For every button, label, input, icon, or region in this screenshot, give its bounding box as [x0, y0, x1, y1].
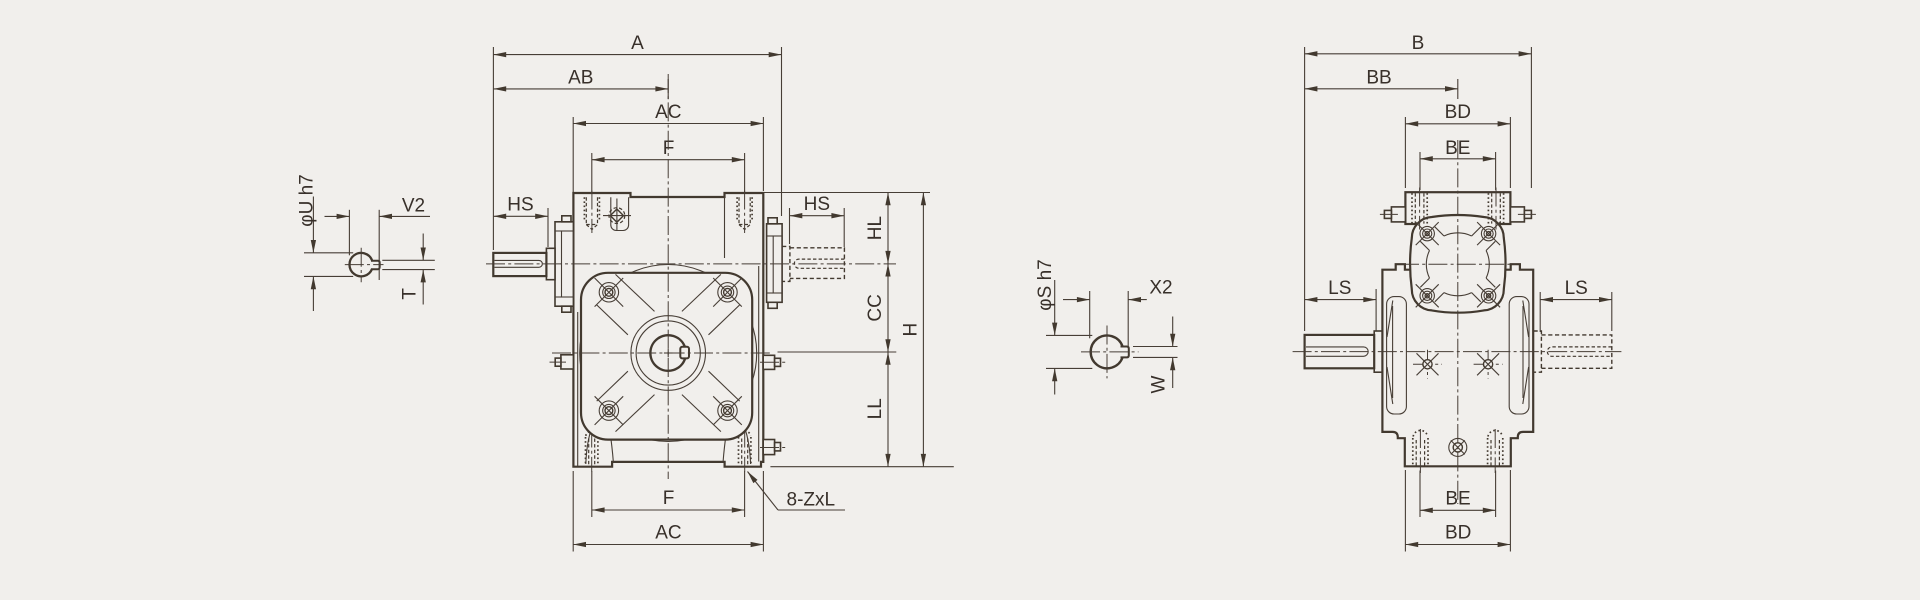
shaft section circle U: [349, 253, 372, 276]
crosshair S: [1081, 351, 1139, 353]
dimension AC bottom: [573, 544, 763, 546]
foot tapped hole right (dotted thread + dashed core): [738, 437, 740, 465]
rib lines top-left: [616, 274, 655, 311]
dimension LL: [887, 352, 889, 467]
output bore (thick, gap at keyway): [650, 335, 685, 371]
vertical centerline: [1457, 140, 1459, 504]
hidden output shaft right (dashed): [1541, 335, 1611, 368]
label 8-ZxL leader: [748, 472, 779, 511]
dimension B: [1305, 53, 1532, 55]
left clamp lug: [561, 355, 574, 369]
crosshair U: [345, 264, 384, 266]
hidden worm shaft collar (dashed): [782, 246, 790, 281]
extension line top (H/HL): [764, 192, 930, 194]
dimension F top: [592, 159, 745, 161]
side bolt right: [1474, 350, 1503, 379]
dimension BD top: [1405, 123, 1510, 125]
svg-text:HS: HS: [507, 195, 533, 216]
svg-text:HL: HL: [865, 216, 886, 240]
inner wall contour right: [758, 266, 760, 462]
svg-text:W: W: [1149, 375, 1170, 393]
bore center mark: [664, 352, 673, 354]
svg-text:V2: V2: [402, 196, 425, 217]
svg-text:φS h7: φS h7: [1035, 259, 1056, 310]
flange lug right: [1510, 207, 1524, 222]
foot tapped hole left (dotted thread + dashed core): [1412, 438, 1414, 466]
dimension CC: [887, 264, 889, 352]
dimension F bottom: [592, 509, 745, 511]
svg-text:F: F: [663, 488, 675, 509]
output bore boss circles: [631, 316, 706, 391]
svg-text:A: A: [631, 33, 644, 54]
output shaft keyway slot: [1306, 347, 1368, 356]
shaft section circle S: [1091, 336, 1123, 369]
input shaft: [493, 253, 546, 276]
dimension BD bottom: [1405, 544, 1510, 546]
output bore keyway: [680, 347, 689, 359]
flange lug left: [1391, 207, 1405, 222]
bell (upper rounded square): [1410, 215, 1505, 313]
dimension T: [382, 259, 435, 261]
tapped hole right pad (dashed): [736, 197, 738, 221]
top flange: [1405, 192, 1510, 224]
foot flare curves: [586, 422, 594, 464]
rib lines top-right: [682, 274, 721, 311]
dimension HS left: [493, 215, 548, 217]
hidden keyway slot (dashed): [794, 259, 844, 268]
dimension phiS: [1046, 334, 1092, 336]
lower body silhouette: [1382, 264, 1533, 466]
tapped hole left pad (dashed): [583, 197, 585, 221]
flange bolt hole left (dashed): [1411, 193, 1413, 223]
dimension BE bottom: [1420, 509, 1496, 511]
svg-text:T: T: [400, 288, 421, 300]
rib lines bottom-left: [616, 395, 655, 432]
right clamp lug: [763, 355, 774, 369]
svg-text:LS: LS: [1328, 278, 1351, 299]
output shaft: [1305, 335, 1375, 368]
svg-text:LS: LS: [1565, 278, 1588, 299]
input bearing cover flange: [555, 222, 573, 306]
worm axis centerline: [486, 263, 896, 265]
dimension AC top: [573, 123, 763, 125]
keyway S: [1121, 347, 1129, 358]
svg-text:AB: AB: [568, 67, 593, 88]
foot tapped hole right (dotted thread + dashed core): [1487, 438, 1489, 466]
dimension X2: [1089, 291, 1091, 338]
svg-text:B: B: [1412, 33, 1425, 54]
extension line bottom (H/LL): [770, 466, 953, 468]
extension line output center (CC/LL): [778, 351, 897, 353]
housing body silhouette: [573, 193, 763, 467]
input shaft keyway slot: [495, 260, 543, 267]
dimension LS left: [1305, 299, 1377, 301]
svg-text:8-ZxL: 8-ZxL: [787, 490, 836, 511]
dimension V2: [348, 210, 350, 256]
dimension H: [922, 193, 924, 467]
output shaft collar: [1374, 331, 1382, 372]
boss corner chamfer lines: [1435, 227, 1444, 236]
dimension AB: [493, 88, 668, 90]
side bolt left: [1413, 350, 1442, 379]
svg-text:φU h7: φU h7: [297, 174, 318, 226]
worm axis crosshair: [1400, 263, 1516, 265]
bottom center bolt: [1449, 438, 1467, 456]
keyway U: [371, 261, 380, 269]
oil plug (square head, dashed thread circle): [609, 208, 625, 224]
output axis centerline: [552, 352, 773, 354]
svg-text:X2: X2: [1149, 278, 1172, 299]
dimension HL: [887, 193, 889, 264]
worm boss arcs: [1444, 233, 1472, 236]
flange bolt hole right (dashed): [1487, 193, 1489, 223]
dimension phiU: [304, 252, 353, 254]
hidden keyway right (dashed): [1547, 347, 1612, 356]
gear housing bell circle: [580, 265, 757, 442]
svg-text:LL: LL: [865, 398, 886, 419]
dimension HS right (hidden shaft): [790, 215, 845, 217]
hidden worm shaft end (dashed): [790, 248, 845, 279]
vertical centerline: [667, 74, 669, 479]
svg-text:BD: BD: [1445, 102, 1471, 123]
right pad inner step edge: [724, 197, 726, 258]
drain plug lug lower right: [763, 440, 774, 455]
output axis centerline: [1293, 351, 1622, 353]
svg-text:CC: CC: [865, 294, 886, 321]
svg-text:H: H: [900, 323, 921, 337]
hidden output shaft collar right (dashed): [1534, 331, 1542, 372]
bell screws: [1416, 222, 1439, 245]
dimension BE top: [1420, 158, 1496, 160]
face plate screws: [595, 278, 624, 307]
face plate: [581, 273, 752, 440]
oil plug boss: [611, 197, 629, 230]
dimension LS right: [1540, 299, 1612, 301]
svg-text:AC: AC: [655, 523, 681, 544]
rib lines bottom-right: [682, 395, 721, 432]
worm end cover flange (right): [767, 224, 783, 302]
inner wall contour left: [577, 312, 579, 466]
svg-text:BB: BB: [1366, 67, 1391, 88]
svg-text:HS: HS: [804, 194, 830, 215]
bearing panel right: [1509, 297, 1529, 414]
dimension W: [1133, 346, 1178, 348]
dimension BB: [1305, 88, 1458, 90]
foot tapped hole left (dotted thread + dashed core): [585, 437, 587, 465]
bearing panel left: [1387, 297, 1407, 414]
svg-text:BD: BD: [1445, 523, 1471, 544]
input shaft collar: [546, 248, 555, 279]
dimension A: [493, 54, 781, 56]
